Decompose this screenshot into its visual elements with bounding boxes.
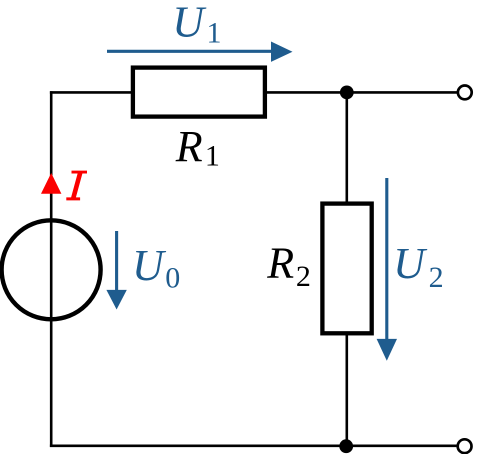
svg-text:1: 1 [207, 17, 222, 50]
node A: junction dot top [340, 86, 354, 100]
label R2 (resistor value label) [266, 239, 311, 293]
wire: right vertical from node A down to R2 top lead [345, 92, 348, 205]
svg-text:2: 2 [296, 260, 311, 293]
svg-text:U: U [172, 0, 207, 47]
voltage arrow U2 (blue, right of R2, pointing down) [377, 178, 397, 361]
svg-text:U: U [393, 239, 428, 288]
svg-text:0: 0 [165, 261, 180, 294]
svg-text:R: R [266, 239, 294, 288]
label U2 [393, 239, 444, 294]
wire: right vertical from R2 bottom lead to bottom node [345, 333, 348, 446]
svg-text:2: 2 [429, 261, 444, 294]
node B: junction dot bottom [339, 439, 353, 453]
label U1 [172, 0, 221, 50]
label R1 (resistor value label) [175, 122, 220, 173]
wire: top-left horizontal from source branch to R1 left lead [50, 91, 133, 94]
terminal: open circle output top right [458, 86, 472, 100]
resistor R1 (horizontal box) [133, 68, 265, 117]
current arrow I (red arrowhead on left branch) [41, 173, 61, 194]
wire: bottom horizontal return wire [50, 444, 457, 447]
label U0 [132, 241, 180, 294]
resistor R2 (vertical box) [322, 204, 371, 334]
label I (current) [66, 171, 87, 201]
voltage arrow U0 (blue, next to source, pointing down) [106, 231, 126, 310]
wire: top-right horizontal from R1 right lead to node A and terminal [265, 91, 457, 94]
voltage source U0 circle [2, 220, 101, 319]
svg-text:R: R [175, 122, 203, 171]
svg-text:1: 1 [205, 139, 220, 172]
terminal: open circle output bottom right [458, 439, 472, 453]
svg-text:U: U [132, 241, 167, 290]
wire: left vertical branch through voltage source [50, 91, 53, 447]
voltage arrow U1 (blue, above R1, pointing right) [107, 42, 293, 62]
